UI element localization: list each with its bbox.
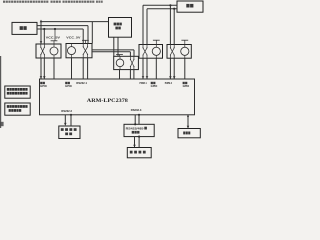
svg-text:RS422/485: RS422/485 (126, 127, 144, 131)
block: RS422/485 converter (124, 124, 154, 136)
wire: L2-L3 upper corner (133, 50, 135, 56)
svg-text:VCC_5V: VCC_5V (46, 36, 61, 40)
pin label 指令 (65, 82, 67, 84)
wire: R2 xb to ARM (173, 58, 175, 78)
wire: RS232-3 b (138, 115, 140, 125)
VCC tap above L1 (51, 40, 58, 42)
wire: L1 circle to ARM (53, 58, 55, 79)
label 主机 line2 (115, 27, 118, 30)
wire: host to bus top line (41, 21, 109, 23)
svg-text:RS232-3: RS232-3 (131, 108, 142, 112)
block: GSM module (178, 129, 200, 138)
arrow into GSM (187, 126, 190, 129)
wire: power rail 2 (37, 28, 83, 30)
wire: L2 xa to ARM (82, 58, 84, 79)
indicator circle L1 (50, 47, 58, 55)
pin label 电机 b (183, 82, 185, 84)
wire: power rail 1 (37, 25, 88, 27)
svg-text:GPIO: GPIO (65, 84, 72, 88)
svg-text:GPIO: GPIO (151, 84, 158, 88)
label 电源 (20, 26, 23, 30)
arrow R2 xa into ARM (169, 76, 172, 79)
label DC-DC line2 (7, 92, 9, 95)
svg-text:GPIO: GPIO (40, 84, 47, 88)
svg-text:RS232-2: RS232-2 (61, 109, 72, 113)
block: motor 电机 (177, 1, 203, 12)
label 电机 (186, 4, 189, 8)
MCU block ARM-LPC2378 (40, 79, 195, 115)
indicator circle R2 (181, 47, 189, 55)
arrow R2 xb into ARM (173, 76, 176, 79)
junction dot rail2-x55 (54, 28, 56, 30)
junction dot RS232-3 a bottom (134, 123, 136, 125)
indicator circle R1 (152, 47, 160, 55)
block: opto coupler L1 (36, 44, 61, 58)
opto contact symbol L3 (129, 56, 131, 59)
wire: R1 xb to ARM (146, 58, 148, 78)
wire: RS232-2 a (64, 115, 66, 125)
block: opto coupler L3 (114, 56, 139, 69)
svg-text:VCC_5V: VCC_5V (66, 35, 81, 39)
label debug line1 (61, 128, 64, 131)
opto contact symbol R2 (169, 45, 171, 48)
wire: L2-L3 lower corner (129, 52, 131, 57)
opto contact symbol L1 (40, 44, 42, 47)
arrow up at top of x41 (40, 20, 43, 23)
label debug line2 (65, 133, 68, 136)
wire: rail2 corner down (82, 29, 84, 44)
arrow R1 xa into ARM (142, 76, 145, 79)
junction dot RS422 bottom (138, 136, 140, 138)
label GSM (183, 132, 185, 135)
left margin mark (0, 122, 4, 126)
wire: vertical x55 to L1 vcc tap (54, 29, 56, 41)
wire: L1 xa to ARM (40, 58, 42, 79)
block: power supply 电源 (12, 22, 37, 34)
label monitor terminal (130, 151, 133, 154)
wire: vertical x44 to L1 (43, 29, 45, 44)
figure caption text (3, 1, 5, 3)
wire: host down b (117, 37, 119, 56)
svg-text:PWM-2: PWM-2 (165, 81, 173, 85)
block: opto coupler R2 (167, 45, 191, 59)
VCC tap above R1 (153, 39, 160, 41)
block: opto coupler R1 (139, 45, 163, 59)
wire: L2 xb to ARM (87, 58, 89, 79)
junction dot line1-x170 (169, 4, 171, 6)
arrow L1 xa into ARM (40, 76, 43, 79)
wire: R2 circle to ARM (184, 58, 186, 79)
label linear line2 (9, 109, 11, 112)
wire: L3 circle to ARM (119, 70, 121, 79)
label linear line1 (7, 105, 9, 108)
label 计算机 line1 (114, 23, 117, 26)
wire: L1 xb to ARM (43, 58, 45, 79)
svg-text:RS232-1: RS232-1 (76, 81, 87, 85)
wire: R2 xa to ARM (169, 58, 171, 78)
wire: R1 circle to ARM (155, 58, 157, 79)
pin label 控制 (40, 82, 42, 84)
block: linear regulator 3.3V (5, 103, 30, 115)
wire: bus branch down at x92 (91, 22, 93, 44)
block: isolated DC-DC converter 5V (5, 86, 30, 98)
wire: host down a (113, 37, 115, 56)
indicator circle L3 (116, 59, 124, 67)
wire: L3 xa to ARM (129, 70, 131, 79)
wire: RS232-2 b (70, 115, 72, 126)
wire: RS232-3 a (134, 115, 136, 125)
page left border line (0, 56, 2, 128)
wire: RS422 to terminal b (138, 137, 140, 148)
wire: R1 xa to ARM (142, 58, 144, 78)
svg-text:ARM-LPC2378: ARM-LPC2378 (87, 98, 128, 104)
wire: motor ctrl line 2 (147, 8, 177, 10)
arrow into L1 top (40, 41, 43, 44)
wire: x170 down to R2 (169, 5, 171, 44)
arrow R1 xb into ARM (146, 76, 149, 79)
VCC tap above L2 (82, 39, 89, 41)
VCC tap above R2 (181, 39, 188, 41)
wire: motor ctrl line 1 (143, 4, 177, 6)
arrow into terminal (133, 145, 136, 148)
svg-text:PWM-1: PWM-1 (140, 81, 148, 85)
opto contact symbol L2 (82, 44, 84, 47)
wire: RS422 to terminal a (134, 137, 136, 147)
block: debug monitor unit (59, 126, 80, 139)
junction dot RS232-2 b (70, 114, 72, 116)
label RS422 line2 (132, 131, 134, 134)
junction dot rail2-x44 (43, 28, 45, 30)
label DC-DC line1 (7, 88, 9, 91)
block: monitor terminal (127, 148, 151, 158)
wire: L2 circle to ARM (71, 58, 73, 79)
wire: ARM to GSM (187, 115, 189, 128)
pin label 电机 a (151, 82, 153, 84)
junction dot GSM wire (187, 116, 189, 118)
junction dot line2-x174 (173, 8, 175, 10)
wire: x174 down to R2 (173, 9, 175, 45)
arrow L1 xb into ARM (43, 76, 46, 79)
indicator circle L2 (68, 47, 76, 55)
wire: x143 down to R1 (142, 5, 144, 44)
wire: vertical x41 bus to L1 (40, 20, 42, 44)
VCC tap above L3 (116, 54, 123, 56)
wire: x147 down to R1 (146, 9, 148, 45)
arrow RS232-2 a (64, 123, 67, 126)
svg-text:GPIO: GPIO (183, 84, 190, 88)
junction dot RS232-3 b top (138, 114, 140, 116)
wire: L3 xb to ARM (133, 70, 135, 79)
scanned paper background (0, 0, 220, 160)
block: host computer 计算机主机 (109, 18, 132, 38)
wire: L2-L3 lower (92, 51, 130, 53)
opto contact symbol R1 (142, 45, 144, 48)
block: opto coupler L2 (66, 44, 92, 58)
wire: L2-L3 upper (92, 49, 134, 51)
wire: rail1 corner down (87, 26, 89, 44)
